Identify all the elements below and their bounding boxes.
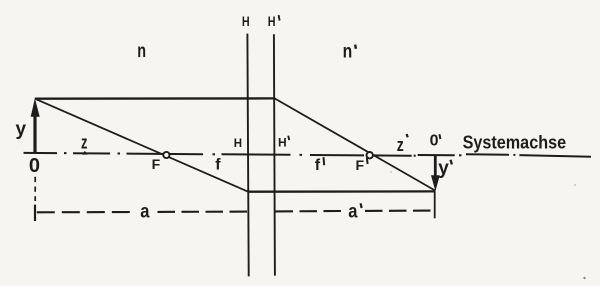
svg-text:F: F [152,156,161,172]
svg-text:a: a [348,202,358,223]
svg-text:H: H [242,13,250,29]
svg-text:0: 0 [29,155,40,177]
svg-text:n: n [137,41,146,62]
svg-text:Systemachse: Systemachse [463,132,566,153]
svg-text:a: a [140,202,150,223]
svg-text:H: H [278,136,287,150]
svg-text:H: H [268,14,276,29]
svg-text:H: H [234,138,242,150]
svg-text:n: n [343,42,353,63]
svg-text:f: f [315,157,321,174]
svg-text:0: 0 [430,132,439,149]
svg-text:z: z [397,135,404,155]
svg-text:y: y [438,158,449,179]
svg-text:F: F [356,157,365,173]
svg-text:y: y [16,119,27,140]
svg-text:z: z [81,133,88,153]
svg-text:f: f [215,157,221,174]
